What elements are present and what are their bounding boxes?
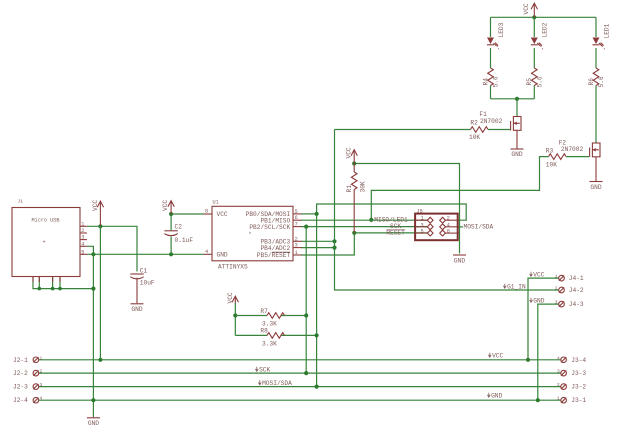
wire IC pin3 row PB4 [301, 247, 335, 249]
resistor R3 [546, 147, 566, 168]
svg-text:10K: 10K [546, 161, 557, 168]
wire VCC left vertical [99, 226, 101, 359]
node R7 vcc junction [233, 313, 237, 317]
node GND label at J4-3 [530, 298, 545, 305]
svg-text:J3-4: J3-4 [571, 357, 586, 364]
wire LED3 to R4 [490, 48, 492, 68]
connector J2-3 [13, 382, 43, 391]
svg-text:PB4/ADC2: PB4/ADC2 [260, 245, 290, 252]
wire VCC to IC pin8 [171, 213, 203, 215]
svg-text:3: 3 [557, 369, 560, 375]
svg-text:6: 6 [295, 215, 298, 221]
svg-text:VCC: VCC [92, 200, 99, 211]
svg-text:3: 3 [555, 300, 558, 306]
supply VCC at USB [92, 200, 104, 227]
svg-text:GND: GND [491, 393, 502, 400]
svg-text:4: 4 [557, 355, 560, 361]
wire PB0 MOSI over-route [317, 204, 467, 220]
svg-text:MOSI/SDA: MOSI/SDA [262, 380, 292, 387]
wire to F1 drain [516, 99, 518, 117]
svg-text:R1: R1 [346, 185, 353, 193]
wire SCK vertical [305, 227, 307, 374]
svg-text:J2-4: J2-4 [13, 397, 28, 404]
wire R5 down [533, 86, 535, 99]
svg-text:C1: C1 [140, 267, 148, 274]
node R8 MOSI junction [315, 333, 319, 337]
node RESET junction [352, 231, 356, 235]
wire R7 left [235, 315, 267, 317]
connector J4-1 [555, 274, 584, 283]
svg-text:J4-2: J4-2 [569, 287, 584, 294]
resistor R1 [346, 164, 367, 233]
wire R4 down [490, 86, 492, 99]
node GND label bottom [487, 393, 502, 400]
svg-text:2: 2 [555, 286, 558, 292]
svg-text:LED1: LED1 [603, 23, 610, 38]
svg-text:GND: GND [88, 420, 99, 427]
wire R7 right [281, 315, 307, 317]
node GND C2 junction [169, 252, 173, 256]
resistor R4 [482, 68, 499, 88]
connector J2-4 [13, 396, 43, 405]
svg-text:J3-2: J3-2 [571, 384, 586, 391]
svg-text:J3-3: J3-3 [571, 370, 586, 377]
svg-text:10K: 10K [469, 134, 480, 141]
node MOSI/SDA label bottom [258, 380, 292, 387]
wire J4-1 vcc [528, 278, 559, 360]
node shield junctions [38, 287, 42, 291]
svg-text:3.3K: 3.3K [262, 320, 277, 327]
wire R6 down to F2 drain [595, 86, 597, 144]
svg-text:5.6: 5.6 [537, 76, 544, 87]
svg-text:J2-2: J2-2 [13, 370, 28, 377]
node G1_IN label at J4-2 [503, 284, 526, 291]
svg-text:1: 1 [557, 396, 560, 402]
svg-text:J1: J1 [18, 199, 24, 205]
ground GND bottom left [87, 418, 100, 427]
wire IC pin5 row [301, 213, 317, 215]
svg-text:GND: GND [590, 184, 601, 191]
svg-text:5.6: 5.6 [598, 76, 605, 87]
wire F1 gate net [335, 129, 471, 131]
node USB vcc junction [98, 224, 102, 228]
connector J4-3 [555, 300, 584, 309]
node VCC label bottom [488, 353, 503, 360]
svg-text:8: 8 [205, 209, 208, 215]
wire GND left vertical [92, 254, 94, 417]
capacitor C2 [164, 223, 193, 244]
wire R3 left elbow [371, 157, 548, 220]
wire bottom MOSI row [39, 386, 561, 388]
connector J2-2 [13, 369, 43, 378]
svg-text:LED2: LED2 [542, 22, 549, 37]
resistor R6 [588, 68, 605, 88]
transistor F2 2N7002 [559, 140, 600, 182]
svg-text:R6: R6 [588, 78, 595, 86]
node GND usb junction [91, 252, 95, 256]
svg-text:PB5/RESET: PB5/RESET [257, 252, 291, 259]
LED LED2 [531, 22, 549, 49]
svg-text:1: 1 [420, 216, 423, 222]
wire SCK row [301, 226, 428, 228]
wire R8 right [281, 334, 317, 336]
supply VCC at R7 [227, 292, 239, 303]
wire C2 top stem [170, 214, 172, 230]
LED LED3 [487, 22, 505, 49]
svg-text:3: 3 [420, 222, 423, 228]
svg-text:VCC: VCC [533, 272, 544, 279]
wire F2 gate from R3 [566, 156, 589, 158]
node SCK label bottom [255, 367, 270, 374]
svg-text:GND: GND [533, 298, 544, 305]
wire LED3 branch [490, 17, 492, 37]
node VCC R1 junction [352, 161, 356, 165]
svg-text:5: 5 [420, 229, 423, 235]
svg-text:2: 2 [447, 216, 450, 222]
wire VCC to J5 [354, 164, 459, 254]
node pin5 junction [315, 212, 319, 216]
pin 2 [440, 217, 446, 223]
node F1 drain junction [515, 97, 519, 101]
wire LED2 branch [533, 17, 535, 37]
svg-text:U1: U1 [213, 200, 219, 206]
svg-text:1: 1 [295, 250, 298, 256]
svg-text:J2-1: J2-1 [13, 357, 28, 364]
svg-text:0.1uF: 0.1uF [175, 237, 194, 244]
svg-text:VCC: VCC [162, 200, 169, 211]
svg-text:3.3K: 3.3K [262, 340, 277, 347]
svg-text:2: 2 [295, 236, 298, 242]
svg-text:2N7002: 2N7002 [480, 118, 503, 125]
svg-text:3: 3 [295, 243, 298, 249]
pin 1 [427, 217, 433, 223]
connector J3-3 [557, 369, 586, 378]
node VCC label at J4-1 [530, 272, 545, 279]
node SCK junction [304, 225, 308, 229]
wire USB pin4 elbow [87, 246, 94, 254]
connector J3-1 [557, 396, 586, 405]
svg-text:J4-3: J4-3 [569, 301, 584, 308]
wire MISO row [301, 219, 428, 221]
op-amp U1 ATTINYX5 [204, 200, 302, 271]
svg-text:J5: J5 [417, 208, 423, 214]
wire GND row left [87, 253, 204, 255]
svg-text:5.6: 5.6 [493, 76, 500, 87]
wire R4/R5 bus [491, 98, 535, 100]
resistor R2 [469, 119, 488, 141]
svg-text:J4-1: J4-1 [569, 275, 584, 282]
wire J5 pin4 stub [458, 226, 463, 228]
svg-text:VCC: VCC [217, 211, 228, 218]
wire LED1 branch [595, 17, 597, 37]
node R7 SCK junction [304, 313, 308, 317]
wire C2 bottom stem [170, 237, 172, 255]
wire R2 to F1 gate [488, 129, 511, 131]
wire bottom GND row [39, 399, 561, 401]
svg-text:Micro USB: Micro USB [32, 218, 60, 224]
svg-text:2N7002: 2N7002 [561, 146, 584, 153]
connector J3-2 [557, 382, 586, 391]
connector J1 Micro USB [12, 199, 87, 283]
svg-text:VCC: VCC [523, 3, 530, 14]
wire bottom VCC row [39, 359, 561, 361]
wire R7 R8 vcc branch [234, 303, 236, 335]
svg-text:R2: R2 [470, 119, 478, 126]
node PB3 junction [332, 239, 336, 243]
connector J5 ISP header [415, 208, 458, 240]
ground GND under C1 [131, 304, 144, 313]
svg-text:R5: R5 [526, 78, 533, 86]
pin 4 [440, 224, 446, 230]
svg-text:J3-1: J3-1 [571, 397, 586, 404]
node MISO junction [369, 218, 373, 222]
wire bottom SCK row [39, 372, 561, 374]
svg-text:VCC: VCC [346, 147, 353, 158]
node VCC C2 junction [169, 212, 173, 216]
svg-text:J2-3: J2-3 [13, 384, 28, 391]
transistor F1 2N7002 [479, 111, 521, 149]
svg-text:6: 6 [447, 229, 450, 235]
svg-text:R7: R7 [260, 308, 268, 315]
svg-text:+: + [43, 240, 46, 246]
svg-text:1: 1 [40, 355, 43, 361]
svg-text:VCC: VCC [227, 292, 234, 303]
ground GND under F1 [511, 149, 524, 158]
svg-text:MOSI/SDA: MOSI/SDA [464, 223, 494, 230]
resistor R7 [260, 308, 284, 328]
wire IC pin1 row PB5 [301, 233, 354, 255]
svg-text:2: 2 [557, 382, 560, 388]
wire USB shield legs [33, 277, 93, 289]
svg-text:R8: R8 [260, 327, 268, 334]
pin 3 [427, 224, 433, 230]
svg-text:5: 5 [295, 209, 298, 215]
wire LED2 to R5 [533, 48, 535, 68]
wire IC pin2 row PB3 [301, 240, 335, 242]
svg-text:G1_IN: G1_IN [507, 284, 526, 291]
connector J4-2 [555, 286, 584, 295]
LED LED1 [593, 23, 611, 49]
wire VCC top bus [491, 16, 597, 18]
svg-text:4: 4 [205, 249, 208, 255]
ground GND under J5 [453, 255, 466, 264]
resistor R8 [260, 327, 284, 347]
svg-text:RESET: RESET [386, 229, 405, 236]
svg-text:ATTINYX5: ATTINYX5 [218, 263, 248, 270]
pin 5 [427, 230, 433, 236]
svg-text:VCC: VCC [492, 353, 503, 360]
pin 6 [440, 230, 446, 236]
node PB4 junction [332, 246, 336, 250]
svg-text:R4: R4 [482, 78, 489, 86]
svg-text:1: 1 [555, 274, 558, 280]
svg-text:GND: GND [131, 306, 142, 313]
svg-text:PB2/SCL/SCK: PB2/SCL/SCK [249, 224, 290, 231]
supply VCC at C2 [162, 200, 175, 214]
svg-text:4: 4 [40, 396, 43, 402]
svg-text:GND: GND [454, 257, 465, 264]
svg-text:GND: GND [217, 252, 228, 259]
wire MOSI vertical [316, 214, 318, 387]
svg-text:10uF: 10uF [140, 279, 155, 286]
wire USB vcc row [87, 226, 137, 271]
svg-text:7: 7 [295, 222, 298, 228]
svg-text:4: 4 [447, 222, 450, 228]
svg-text:3: 3 [40, 382, 43, 388]
wire J4-3 gnd [538, 304, 559, 400]
svg-text:GND: GND [511, 151, 522, 158]
capacitor C1 [130, 267, 155, 303]
svg-text:R3: R3 [546, 147, 554, 154]
supply VCC top [523, 3, 538, 17]
wire RESET row [354, 232, 427, 234]
wire J5 pin6 stub [458, 232, 460, 234]
connector J2-1 [13, 355, 43, 364]
wire LED1 to R6 [595, 48, 597, 68]
svg-text:30K: 30K [360, 181, 367, 192]
wire G1_IN vertical [335, 130, 559, 291]
svg-text:*: * [249, 232, 252, 238]
connector J3-4 [557, 355, 586, 364]
ground GND under F2 [590, 182, 603, 191]
svg-text:SCK: SCK [259, 367, 270, 374]
svg-text:LED3: LED3 [498, 22, 505, 37]
node VCC top junction [532, 15, 536, 19]
svg-text:C2: C2 [175, 223, 183, 230]
svg-text:2: 2 [40, 369, 43, 375]
wire R8 left [235, 334, 267, 336]
supply VCC mid [346, 147, 358, 163]
resistor R5 [526, 68, 543, 88]
